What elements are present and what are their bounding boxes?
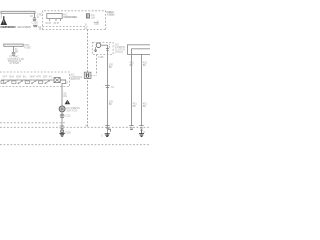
ground G105 <box>59 133 64 136</box>
A/C control assembly (dashed box) <box>0 72 70 87</box>
svg-text:BK: BK <box>109 66 113 69</box>
svg-text:FUSE: FUSE <box>24 46 31 49</box>
svg-text:A/C: A/C <box>49 76 53 79</box>
caution triangle at pressure switch <box>65 100 71 104</box>
fuse block bottom edge outer <box>42 29 105 31</box>
splice symbol <box>33 25 38 26</box>
clutch wire inline connector <box>105 86 110 88</box>
bus left stub wire <box>0 13 2 18</box>
svg-text:BK: BK <box>143 105 147 108</box>
svg-text:COMPRESSOR RELAY: COMPRESSOR RELAY <box>63 16 78 19</box>
svg-text:30 86: 30 86 <box>45 23 51 25</box>
svg-text:G105: G105 <box>65 131 72 134</box>
svg-text:HVAC SYSTEMS: HVAC SYSTEMS <box>17 25 31 29</box>
svg-text:C113: C113 <box>65 115 71 118</box>
wire exit from control head <box>60 80 65 106</box>
mode switch contact 4 <box>25 81 29 84</box>
connector below switch <box>60 114 65 117</box>
svg-text:DG: DG <box>64 95 68 98</box>
connector ring below B <box>61 130 64 133</box>
pin bracket <box>94 22 99 25</box>
dashed connector routing <box>96 55 98 76</box>
harness dashed line B <box>0 126 150 128</box>
connector symbol <box>12 52 16 55</box>
svg-text:(C60): (C60) <box>115 51 123 54</box>
clutch wire connector at B <box>105 126 109 128</box>
control bus wire <box>1 79 54 81</box>
svg-text:C100: C100 <box>32 21 39 25</box>
wire from bus to connector C100 <box>34 13 36 17</box>
wire 2 connector at B <box>139 126 143 128</box>
fuse block bottom edge inner <box>42 26 87 28</box>
coil ground <box>94 50 97 51</box>
harness dashed line A <box>0 122 66 124</box>
relay pin 30 <box>49 19 51 21</box>
power feed bus B+ (top left) <box>1 11 35 13</box>
mode switch contact 3 <box>18 83 19 84</box>
svg-text:OFF: OFF <box>3 77 8 79</box>
heater bus (mid left) <box>4 44 23 46</box>
ground G below wire 2 <box>139 134 144 137</box>
caution triangle note stem <box>3 16 5 18</box>
splice on wire 2 <box>141 129 143 131</box>
PCM wire loop outer <box>128 45 151 55</box>
svg-text:C105: C105 <box>98 56 104 59</box>
fuse F1 <box>86 14 89 18</box>
svg-text:SWITCH: SWITCH <box>71 78 81 81</box>
connector leader <box>91 74 96 76</box>
PCM wire loop inner + ground wire 1 <box>132 49 151 126</box>
svg-text:G: G <box>101 135 103 138</box>
svg-text:COMPRESSOR: COMPRESSOR <box>0 25 16 29</box>
svg-text:BK: BK <box>133 105 137 108</box>
svg-text:G: G <box>143 131 145 134</box>
mode switch contact 7 <box>45 83 46 84</box>
mode switch contact 5 <box>31 83 32 84</box>
A/C switch box with X <box>54 78 60 83</box>
svg-text:SWITCH: SWITCH <box>66 109 77 112</box>
svg-text:FUSE BLK: FUSE BLK <box>107 13 115 16</box>
mode switch contact 1 <box>4 83 5 84</box>
mode switch contact 2 <box>12 81 16 84</box>
svg-text:SYSTEM: SYSTEM <box>10 63 20 65</box>
svg-text:BK: BK <box>109 103 113 106</box>
A/C compressor (dashed box) <box>92 42 113 54</box>
wire from heater bus <box>13 46 15 52</box>
wire below switch <box>61 112 63 134</box>
bottom harness dashed line <box>0 144 150 146</box>
clutch wire <box>101 45 108 136</box>
clutch ground <box>105 134 110 137</box>
diode ticks <box>106 48 109 50</box>
A/C compressor relay U1 <box>47 13 62 18</box>
svg-text:BK: BK <box>143 64 147 67</box>
wire 1 connector at B <box>129 126 133 128</box>
svg-text:HTR: HTR <box>36 77 41 79</box>
caution triangle note <box>1 18 8 25</box>
relay pin 87 <box>55 19 57 21</box>
clutch coil <box>96 43 101 48</box>
inline connector C2 on boundary <box>84 72 91 78</box>
svg-text:MAX: MAX <box>9 76 14 79</box>
harness boundary dashed vertical <box>87 30 89 128</box>
left end resistor block <box>1 81 4 84</box>
svg-text:NOR: NOR <box>16 77 21 79</box>
ground wire 2 <box>141 54 143 126</box>
wire 1 end tick <box>130 129 133 131</box>
svg-text:VENT: VENT <box>29 77 36 79</box>
svg-text:. . . . . .: . . . . . . <box>92 8 100 11</box>
coil ground stem <box>95 47 97 50</box>
underhood fuse block (dashed box) <box>42 11 105 30</box>
relay pin 85 <box>60 19 62 21</box>
svg-text:BK: BK <box>130 64 134 67</box>
svg-text:BR: BR <box>15 50 19 53</box>
svg-text:85 87: 85 87 <box>54 23 60 25</box>
svg-text:DEF: DEF <box>43 77 48 79</box>
wire 2 stub to ground <box>141 130 143 133</box>
connector C100 <box>33 18 37 21</box>
clutch ground bracket <box>108 129 111 131</box>
mode switch contact 6 <box>39 81 43 84</box>
bus contact dots <box>3 79 51 80</box>
svg-text:BI-L: BI-L <box>23 77 28 79</box>
connector at line B on switch wire <box>60 126 64 128</box>
A/C pressure switch (circle) <box>59 106 65 112</box>
